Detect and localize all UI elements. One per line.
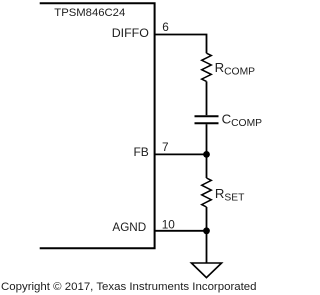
wire RSET to AGND node [206, 207, 208, 231]
wire FB pin 7 to node [155, 153, 207, 155]
svg-text:10: 10 [162, 218, 176, 232]
svg-text:TPSM846C24: TPSM846C24 [54, 7, 125, 19]
svg-text:6: 6 [162, 20, 169, 34]
svg-text:FB: FB [133, 145, 148, 159]
ground [191, 263, 221, 278]
svg-text:RCOMP: RCOMP [215, 60, 256, 78]
wire CCOMP to FB node [206, 124, 208, 154]
wire RCOMP to CCOMP [206, 81, 208, 115]
junction node AGND [203, 227, 210, 234]
svg-text:RSET: RSET [215, 186, 245, 204]
resistor RSET [202, 178, 212, 207]
wire FB node to RSET [206, 154, 208, 178]
junction node FB [203, 151, 210, 158]
capacitor CCOMP [195, 116, 219, 123]
resistor RCOMP [202, 53, 212, 81]
wire AGND node to ground [206, 231, 208, 263]
svg-text:7: 7 [162, 140, 169, 154]
svg-text:AGND: AGND [112, 221, 146, 234]
svg-text:CCOMP: CCOMP [222, 111, 262, 129]
IC module U1 TPSM846C24 outline [40, 3, 155, 248]
wire AGND pin 10 to node [155, 230, 207, 232]
svg-text:DIFFO: DIFFO [112, 26, 150, 40]
svg-text:Copyright © 2017, Texas Instru: Copyright © 2017, Texas Instruments Inco… [1, 281, 257, 293]
wire DIFFO pin 6 to RCOMP [155, 35, 207, 54]
